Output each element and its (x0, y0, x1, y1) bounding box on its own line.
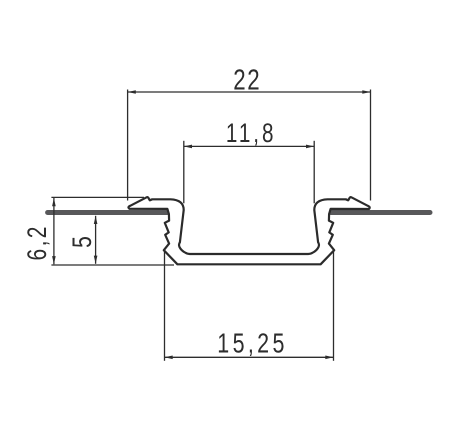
arrow 22 right (362, 90, 370, 94)
dimension line 11,8 (184, 145, 314, 147)
profile outline (aluminium cross-section) (128, 197, 369, 264)
svg-text:11,8: 11,8 (226, 118, 277, 148)
arrow 11,8 right (306, 145, 314, 149)
panel surface left (grey bar) (48, 210, 169, 215)
arrow 11,8 left (184, 145, 192, 149)
extension line 6,2 top (51, 196, 144, 198)
dimension line 15,25 (165, 356, 334, 358)
extension line 11,8 right (313, 141, 315, 204)
arrow 22 left (128, 90, 136, 94)
extension line 22 left (127, 90, 129, 201)
arrow 5 top (94, 216, 98, 224)
svg-text:6,2: 6,2 (22, 224, 52, 260)
extension line 15,25 left (164, 249, 166, 361)
svg-text:15,25: 15,25 (217, 329, 287, 359)
svg-text:22: 22 (233, 65, 261, 96)
arrow 5 bottom (94, 256, 98, 264)
svg-text:5: 5 (67, 236, 97, 248)
extension line bottom (6,2) (51, 264, 174, 266)
arrow 6,2 bottom (52, 256, 56, 264)
extension line 15,25 right (333, 249, 335, 361)
dimension line 22 (128, 91, 371, 93)
arrow 15,25 left (165, 356, 173, 360)
arrow 15,25 right (325, 356, 333, 360)
panel surface right (grey bar) (331, 210, 430, 215)
arrow 6,2 top (52, 198, 56, 206)
extension line 22 right (370, 90, 372, 201)
dimension line 5 (95, 216, 97, 264)
dimension line 6,2 (53, 198, 55, 264)
extension line 11,8 left (183, 141, 185, 204)
